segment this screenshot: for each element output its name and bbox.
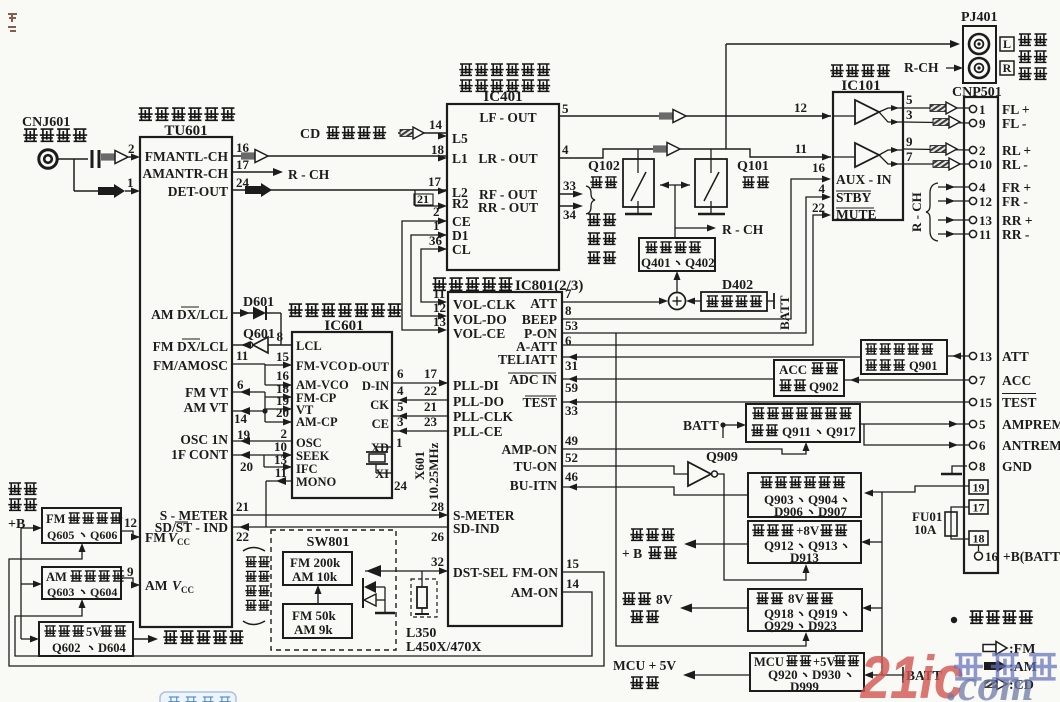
CNP501 pin 17 boxed <box>969 500 988 515</box>
svg-text:ADC IN: ADC IN <box>509 372 557 387</box>
svg-text:AM-ON: AM-ON <box>511 585 558 600</box>
svg-text:Q603: Q603 <box>47 585 74 599</box>
R-CH brace for rear pins <box>909 183 938 241</box>
CNP501 pin 6 ANTREM <box>969 438 1060 453</box>
wire PLL-CE to CE <box>392 414 448 435</box>
svg-text:Q901: Q901 <box>909 359 937 373</box>
svg-text:8: 8 <box>565 303 572 318</box>
wire R-CH into PJ401 <box>904 60 963 75</box>
wire FM-ON loop to FM power box <box>9 543 604 666</box>
CNP501 pin 15 TEST <box>969 394 1036 411</box>
wire PLL-DO to D-IN <box>392 383 448 404</box>
wire BU-ITN from power detect <box>562 469 748 495</box>
svg-text:8V: 8V <box>788 591 805 606</box>
wire BATT to common 8V box <box>862 605 882 612</box>
svg-text:D604: D604 <box>98 641 127 655</box>
wire TU-ON to inverter Q909 <box>562 450 688 474</box>
wire AMPREM from Q911 box <box>860 421 969 428</box>
wire ATT to summing junction <box>562 286 668 305</box>
svg-text:AM DX/LCL: AM DX/LCL <box>151 307 228 322</box>
watermark electronics net glyphs <box>954 655 1057 679</box>
svg-text:ACC: ACC <box>779 362 807 377</box>
svg-text:AM 9k: AM 9k <box>294 622 333 637</box>
CNP501 pin 8 GND <box>969 459 1032 474</box>
inverter Q909 <box>688 450 738 486</box>
svg-text:D906: D906 <box>774 504 803 519</box>
svg-text:3: 3 <box>906 107 913 122</box>
wire IC401 D1 to IC801 VOL-DO <box>411 218 447 320</box>
svg-text:33: 33 <box>565 403 579 418</box>
wire +B feeds <box>21 525 42 643</box>
CNP501 pin 13 ATT <box>969 349 1028 364</box>
svg-text:VOL-CE: VOL-CE <box>453 326 505 341</box>
svg-text:ATT: ATT <box>1002 349 1029 364</box>
wire TEST line <box>562 399 969 419</box>
svg-text:AMP-ON: AMP-ON <box>502 442 558 457</box>
svg-text:Q606: Q606 <box>90 528 117 542</box>
svg-text:1: 1 <box>433 218 440 233</box>
svg-text:1F CONT: 1F CONT <box>171 447 228 462</box>
CNP501 pin 9 FL- <box>969 116 1026 131</box>
svg-text:D-OUT: D-OUT <box>349 360 390 374</box>
svg-text:12: 12 <box>124 515 137 530</box>
amp triangle 2 <box>833 143 903 167</box>
volume/source select IC401 <box>447 64 559 270</box>
svg-text:CL: CL <box>452 242 471 257</box>
fuse FU01 10A <box>912 507 969 539</box>
mute control box Q401 Q402 <box>639 238 715 271</box>
summing node to mute control <box>674 271 681 293</box>
legend AM arrow <box>984 660 1037 675</box>
summing junction circle <box>669 293 686 310</box>
svg-text:AMPREM: AMPREM <box>1002 417 1060 432</box>
wire 1F CONT to SEEK and IFC <box>232 451 292 474</box>
svg-text:5: 5 <box>979 417 986 432</box>
svg-text:IFC: IFC <box>296 462 318 476</box>
svg-text:MCU + 5V: MCU + 5V <box>613 658 676 673</box>
svg-text:BATT: BATT <box>683 418 719 433</box>
svg-text:8: 8 <box>277 329 284 344</box>
svg-text:11: 11 <box>795 141 807 156</box>
svg-text:TU601: TU601 <box>164 123 207 139</box>
svg-text:4: 4 <box>562 142 569 157</box>
svg-text:R - CH: R - CH <box>722 222 764 237</box>
svg-text:Q601: Q601 <box>243 327 275 342</box>
svg-text:22: 22 <box>424 383 437 398</box>
wire antenna to capacitor <box>57 158 88 160</box>
diode D601 <box>232 295 281 345</box>
svg-text:10A: 10A <box>914 522 937 537</box>
svg-text:5: 5 <box>906 92 913 107</box>
svg-text:R - CH: R - CH <box>909 192 924 232</box>
svg-text:RR - OUT: RR - OUT <box>478 200 538 215</box>
switch option box FM50k AM9k <box>283 604 352 638</box>
wire BATT to tuner 8V box <box>861 539 882 546</box>
svg-text:53: 53 <box>565 318 579 333</box>
svg-text:ACC: ACC <box>1002 373 1031 388</box>
wire pin19 to BATT rail <box>864 486 969 497</box>
svg-text:RL +: RL + <box>1002 143 1031 158</box>
svg-text:23: 23 <box>424 414 438 429</box>
system controller IC801(2/3) <box>448 292 562 626</box>
svg-text:X601: X601 <box>412 451 427 480</box>
audio line out labels L R <box>1000 34 1047 79</box>
svg-text:TEST: TEST <box>1002 395 1037 410</box>
svg-text:D907: D907 <box>818 504 847 519</box>
svg-text:+B(BATT: +B(BATT <box>1003 549 1060 564</box>
svg-text:GND: GND <box>1002 459 1032 474</box>
svg-text:19: 19 <box>973 481 985 495</box>
CNP501 pin 5 AMPREM <box>969 417 1060 432</box>
wire BEEP to AUX-IN <box>562 176 831 320</box>
svg-text:AMANTR-CH: AMANTR-CH <box>143 166 229 181</box>
svg-text:1: 1 <box>127 175 134 190</box>
inverter Q601 <box>232 327 292 353</box>
wire RF-OUT rear channel <box>559 178 583 198</box>
svg-text:33: 33 <box>563 178 577 193</box>
svg-text:D1: D1 <box>452 228 469 243</box>
svg-text:FM/AMOSC: FM/AMOSC <box>153 358 228 373</box>
svg-text:Q604: Q604 <box>90 585 117 599</box>
IC101 pin labels <box>812 160 892 222</box>
svg-text:PLL-CLK: PLL-CLK <box>453 409 514 424</box>
wire tuner B power arrow <box>622 529 748 561</box>
svg-text:10.25MHz: 10.25MHz <box>426 442 441 500</box>
switch option box FM200k AM10k <box>283 552 352 585</box>
svg-text:OSC 1N: OSC 1N <box>180 432 228 447</box>
wire Q909 output down to tuner 8V feed <box>718 474 810 580</box>
svg-text:CE: CE <box>372 417 389 431</box>
svg-text:1: 1 <box>396 435 403 450</box>
svg-text:2: 2 <box>433 204 440 219</box>
svg-text:MUTE: MUTE <box>836 207 877 222</box>
svg-text:2: 2 <box>128 141 135 156</box>
svg-text:17: 17 <box>424 366 438 381</box>
capacitor C (antenna coupling) <box>92 150 99 168</box>
legend signal channel <box>951 611 1033 623</box>
scan artifact marks top-left <box>8 14 17 31</box>
delay mute D402 box <box>686 278 767 311</box>
svg-text:17: 17 <box>428 174 442 189</box>
PLL control IC601 <box>292 332 392 498</box>
TU601 pin labels inside <box>143 149 229 595</box>
CNP501 pin 16 +B BATT <box>975 545 1060 564</box>
wire ADC IN to ACC box <box>562 376 774 396</box>
wire DET-OUT to IC401 L2/R2 <box>232 174 447 210</box>
svg-text:Q602: Q602 <box>52 641 80 655</box>
svg-text:20: 20 <box>240 459 253 474</box>
svg-text:PLL-DO: PLL-DO <box>453 394 504 409</box>
auto antenna and amp control box Q911 Q917 <box>746 404 860 442</box>
wire amp out pin9 to RL+ <box>903 134 969 155</box>
svg-text:14: 14 <box>234 411 248 426</box>
svg-text:D-IN: D-IN <box>362 379 389 393</box>
wire ATT pin13 to phone mute Q901 <box>947 353 969 360</box>
svg-text:TEST: TEST <box>522 395 557 410</box>
connector CNP501 label <box>952 85 1002 100</box>
svg-text:CNJ601: CNJ601 <box>22 115 70 130</box>
svg-text:12: 12 <box>794 100 807 115</box>
svg-text:SD-IND: SD-IND <box>453 521 500 536</box>
svg-text:52: 52 <box>565 450 578 465</box>
svg-text:LF - OUT: LF - OUT <box>479 110 536 125</box>
amp triangle 1 <box>833 100 903 125</box>
wire RR-OUT rear channel <box>559 203 583 223</box>
wire S-METER line <box>232 499 448 519</box>
rear channel output label <box>0 0 1 1</box>
svg-text:CC: CC <box>177 537 190 547</box>
CNP501 pin 11 RR- <box>938 227 1029 242</box>
wire AMANTR-CH R-CH stub <box>232 157 330 182</box>
svg-text:FM 200k: FM 200k <box>290 555 341 570</box>
svg-text:Q909: Q909 <box>706 450 738 465</box>
arrow between switch boxes <box>315 585 322 604</box>
svg-text:SEEK: SEEK <box>296 449 330 463</box>
CNP501 pin 4 FR+ <box>938 180 1031 195</box>
CNP501 pin 18 boxed <box>969 531 988 546</box>
svg-text:6: 6 <box>979 438 986 453</box>
wire MONO to SD line <box>266 477 292 527</box>
svg-text:STBY: STBY <box>836 190 872 205</box>
CNP501 pin 13 RR+ <box>938 213 1033 228</box>
wire AMP-ON to antenna amp control <box>562 433 810 454</box>
svg-text:24: 24 <box>394 478 408 493</box>
phone mute control box Q901 <box>861 340 947 374</box>
FM power control box Q605 Q606 <box>42 508 122 543</box>
svg-text:CE: CE <box>452 214 471 229</box>
rear channel brace and label <box>586 186 616 263</box>
svg-text:L5: L5 <box>452 131 468 146</box>
wire LR-OUT to IC101 pin11 <box>559 141 831 161</box>
svg-text:10: 10 <box>979 157 992 172</box>
CNP501 pin 1 FL+ <box>969 102 1029 117</box>
svg-text:36: 36 <box>429 233 443 248</box>
svg-text:16: 16 <box>985 549 999 564</box>
wire ANTREM from Q911 box <box>864 424 969 449</box>
svg-text:46: 46 <box>565 469 579 484</box>
svg-text:D999: D999 <box>790 679 819 694</box>
svg-text:D601: D601 <box>243 295 274 310</box>
svg-text:31: 31 <box>565 358 578 373</box>
CNP501 pin 7 ACC <box>969 373 1031 388</box>
wire FMANTL-CH to IC401 L1 <box>232 140 447 163</box>
svg-text:FL -: FL - <box>1002 116 1026 131</box>
svg-text:7: 7 <box>565 286 572 301</box>
wire IC401 CE to IC801 VOL-CE <box>402 204 447 334</box>
svg-text:+8V: +8V <box>796 523 820 538</box>
svg-text:AM VT: AM VT <box>184 400 228 415</box>
svg-text:D402: D402 <box>722 278 753 293</box>
svg-text:Q929: Q929 <box>764 618 794 633</box>
svg-text:9: 9 <box>906 134 913 149</box>
svg-text:R-CH: R-CH <box>904 60 939 75</box>
svg-text:15: 15 <box>979 395 993 410</box>
svg-text:AM-CP: AM-CP <box>296 415 338 429</box>
IC601 pin labels <box>274 329 390 489</box>
svg-text:AM: AM <box>145 578 168 593</box>
svg-text:15: 15 <box>276 349 290 364</box>
svg-text:FR -: FR - <box>1002 194 1028 209</box>
wire SD-IND line <box>232 523 448 544</box>
wire LF-OUT to IC101 pin12 <box>559 100 831 123</box>
svg-text:Q102: Q102 <box>588 159 620 174</box>
svg-text:ANTREM: ANTREM <box>1002 438 1060 453</box>
svg-text:FL +: FL + <box>1002 102 1030 117</box>
svg-text:Q605: Q605 <box>47 528 74 542</box>
wire amp out pin5 to FL+ <box>903 92 969 114</box>
svg-text:D913: D913 <box>790 550 819 565</box>
MCU 5V power box Q920 D930 D999 <box>750 653 864 694</box>
svg-text:6: 6 <box>237 377 244 392</box>
svg-text:L1: L1 <box>452 151 468 166</box>
svg-text:L: L <box>1003 37 1011 51</box>
svg-text:CD: CD <box>300 127 320 142</box>
svg-text:FR +: FR + <box>1002 180 1031 195</box>
legend CD arrow <box>985 678 1034 693</box>
svg-text:R: R <box>1003 61 1012 75</box>
svg-text:34: 34 <box>563 207 577 222</box>
svg-text:AM: AM <box>46 570 67 584</box>
svg-text:17: 17 <box>973 501 985 515</box>
svg-text:FM VT: FM VT <box>185 385 228 400</box>
svg-text:21: 21 <box>424 399 437 414</box>
ACC detect box Q902 <box>774 360 844 396</box>
svg-text:17: 17 <box>236 157 250 172</box>
wire mute control bus <box>660 182 764 239</box>
svg-text:9: 9 <box>979 116 986 131</box>
wire tap to PJ401 L jack <box>726 40 960 149</box>
svg-text:11: 11 <box>236 348 248 363</box>
AM signal arrow into TU601 pin1 <box>98 175 140 198</box>
wire amp out pin7 to RL- <box>903 149 969 170</box>
svg-text:LR - OUT: LR - OUT <box>478 151 537 166</box>
tuner block TU601 <box>138 108 235 627</box>
svg-text:FM 50k: FM 50k <box>292 608 336 623</box>
svg-text:18: 18 <box>973 532 985 546</box>
wire common 8V output arrow <box>622 592 748 622</box>
wire OSC 1N to OSC <box>232 427 292 445</box>
BATT rail vertical <box>881 492 883 675</box>
wire AM-ON loop to AM power box <box>15 576 592 656</box>
svg-text:49: 49 <box>565 433 579 448</box>
CNP501 pin 12 FR- <box>938 194 1028 209</box>
svg-text:R - CH: R - CH <box>288 167 330 182</box>
wire D-OUT to PLL-DI <box>392 366 448 387</box>
svg-text:IC401: IC401 <box>483 89 522 105</box>
AM power control box Q603 Q604 <box>42 567 124 599</box>
svg-text:BU-ITN: BU-ITN <box>510 478 558 493</box>
svg-text:FMANTL-CH: FMANTL-CH <box>145 149 229 164</box>
svg-text:L450X/470X: L450X/470X <box>406 640 481 655</box>
svg-text:BATT: BATT <box>777 295 792 330</box>
svg-text:FM: FM <box>145 530 166 545</box>
svg-text:ATT: ATT <box>530 296 557 311</box>
svg-text:Q101: Q101 <box>737 159 769 174</box>
svg-text:32: 32 <box>431 554 444 569</box>
svg-text:21: 21 <box>236 499 249 514</box>
wire amp out pin3 to FL- <box>903 107 969 128</box>
svg-text:Q911: Q911 <box>782 424 811 439</box>
svg-text:6: 6 <box>565 333 572 348</box>
frequency jump selector vertical label <box>243 548 270 625</box>
svg-text:7: 7 <box>906 149 913 164</box>
svg-text:Q917: Q917 <box>826 424 856 439</box>
IC801 pin labels <box>453 296 558 600</box>
wire MCU 5V output arrow <box>613 658 750 688</box>
PLL control IC601 label <box>288 304 401 334</box>
power amp IC101 label <box>830 65 890 94</box>
svg-text:FM: FM <box>46 512 66 526</box>
svg-text:VOL-DO: VOL-DO <box>453 312 507 327</box>
connector CNJ601 label <box>22 115 87 141</box>
wire ACC pin7 to ACC box <box>844 377 969 384</box>
wire A-ATT to MUTE <box>562 212 831 349</box>
jack PJ401 label <box>961 10 998 25</box>
svg-text:DET-OUT: DET-OUT <box>168 184 228 199</box>
wire PLL-CLK to CK <box>392 399 448 420</box>
antenna jack CNJ601 <box>39 150 57 168</box>
svg-text:BEEP: BEEP <box>522 312 557 327</box>
BATT tick at D402 <box>767 293 792 330</box>
svg-text:D923: D923 <box>808 618 837 633</box>
svg-text:22: 22 <box>236 529 249 544</box>
svg-text:PLL-DI: PLL-DI <box>453 378 499 393</box>
svg-text:FM-ON: FM-ON <box>512 565 558 580</box>
wire to PLL power label <box>133 631 244 643</box>
svg-text:9: 9 <box>127 564 134 579</box>
wire CD audio input to IC401 L5 <box>300 117 447 142</box>
switch block SW801 dashed <box>271 530 396 650</box>
CNP501 pin 2 RL+ <box>969 143 1031 158</box>
svg-text:VOL-CLK: VOL-CLK <box>453 297 516 312</box>
svg-text:13: 13 <box>979 349 993 364</box>
svg-text:FM-VCO: FM-VCO <box>296 359 348 373</box>
svg-text:R2: R2 <box>452 196 469 211</box>
wire AM Vcc to TU601 <box>121 564 140 589</box>
svg-text:RR +: RR + <box>1002 213 1033 228</box>
svg-text:Q401: Q401 <box>641 255 671 270</box>
svg-text:8V: 8V <box>656 592 673 607</box>
mute switch Q101 <box>695 149 769 214</box>
svg-text:8: 8 <box>979 459 986 474</box>
svg-text:2: 2 <box>979 143 986 158</box>
connector CNP501 body <box>964 97 998 573</box>
svg-text:CK: CK <box>370 398 389 412</box>
wire FM/AMOSC to FM-VCO and AM-VCO <box>232 348 292 389</box>
power amp IC101 <box>833 92 903 220</box>
svg-text:AM 10k: AM 10k <box>292 569 338 584</box>
jack PJ401 body <box>963 26 996 83</box>
svg-text:14: 14 <box>566 576 580 591</box>
CNP501 pin 19 boxed <box>969 480 988 495</box>
svg-text:7: 7 <box>979 373 986 388</box>
svg-text:RL -: RL - <box>1002 157 1028 172</box>
FM signal arrow into TU601 pin2 <box>101 141 140 164</box>
svg-text:28: 28 <box>431 499 445 514</box>
svg-text:TU-ON: TU-ON <box>514 459 558 474</box>
svg-text:14: 14 <box>429 117 443 132</box>
tuner +8V power box Q912 Q913 D913 <box>748 521 861 565</box>
svg-text:15: 15 <box>566 556 580 571</box>
svg-text:PJ401: PJ401 <box>961 10 998 25</box>
legend FM arrow <box>983 642 1035 658</box>
power detect box Q903 Q904 D906 D907 <box>748 473 861 519</box>
mute switch Q102 <box>588 149 654 214</box>
radio power +B label <box>8 483 37 532</box>
svg-text:Q902: Q902 <box>809 379 839 394</box>
svg-text:AM-VCO: AM-VCO <box>296 378 349 392</box>
svg-text:26: 26 <box>431 529 445 544</box>
